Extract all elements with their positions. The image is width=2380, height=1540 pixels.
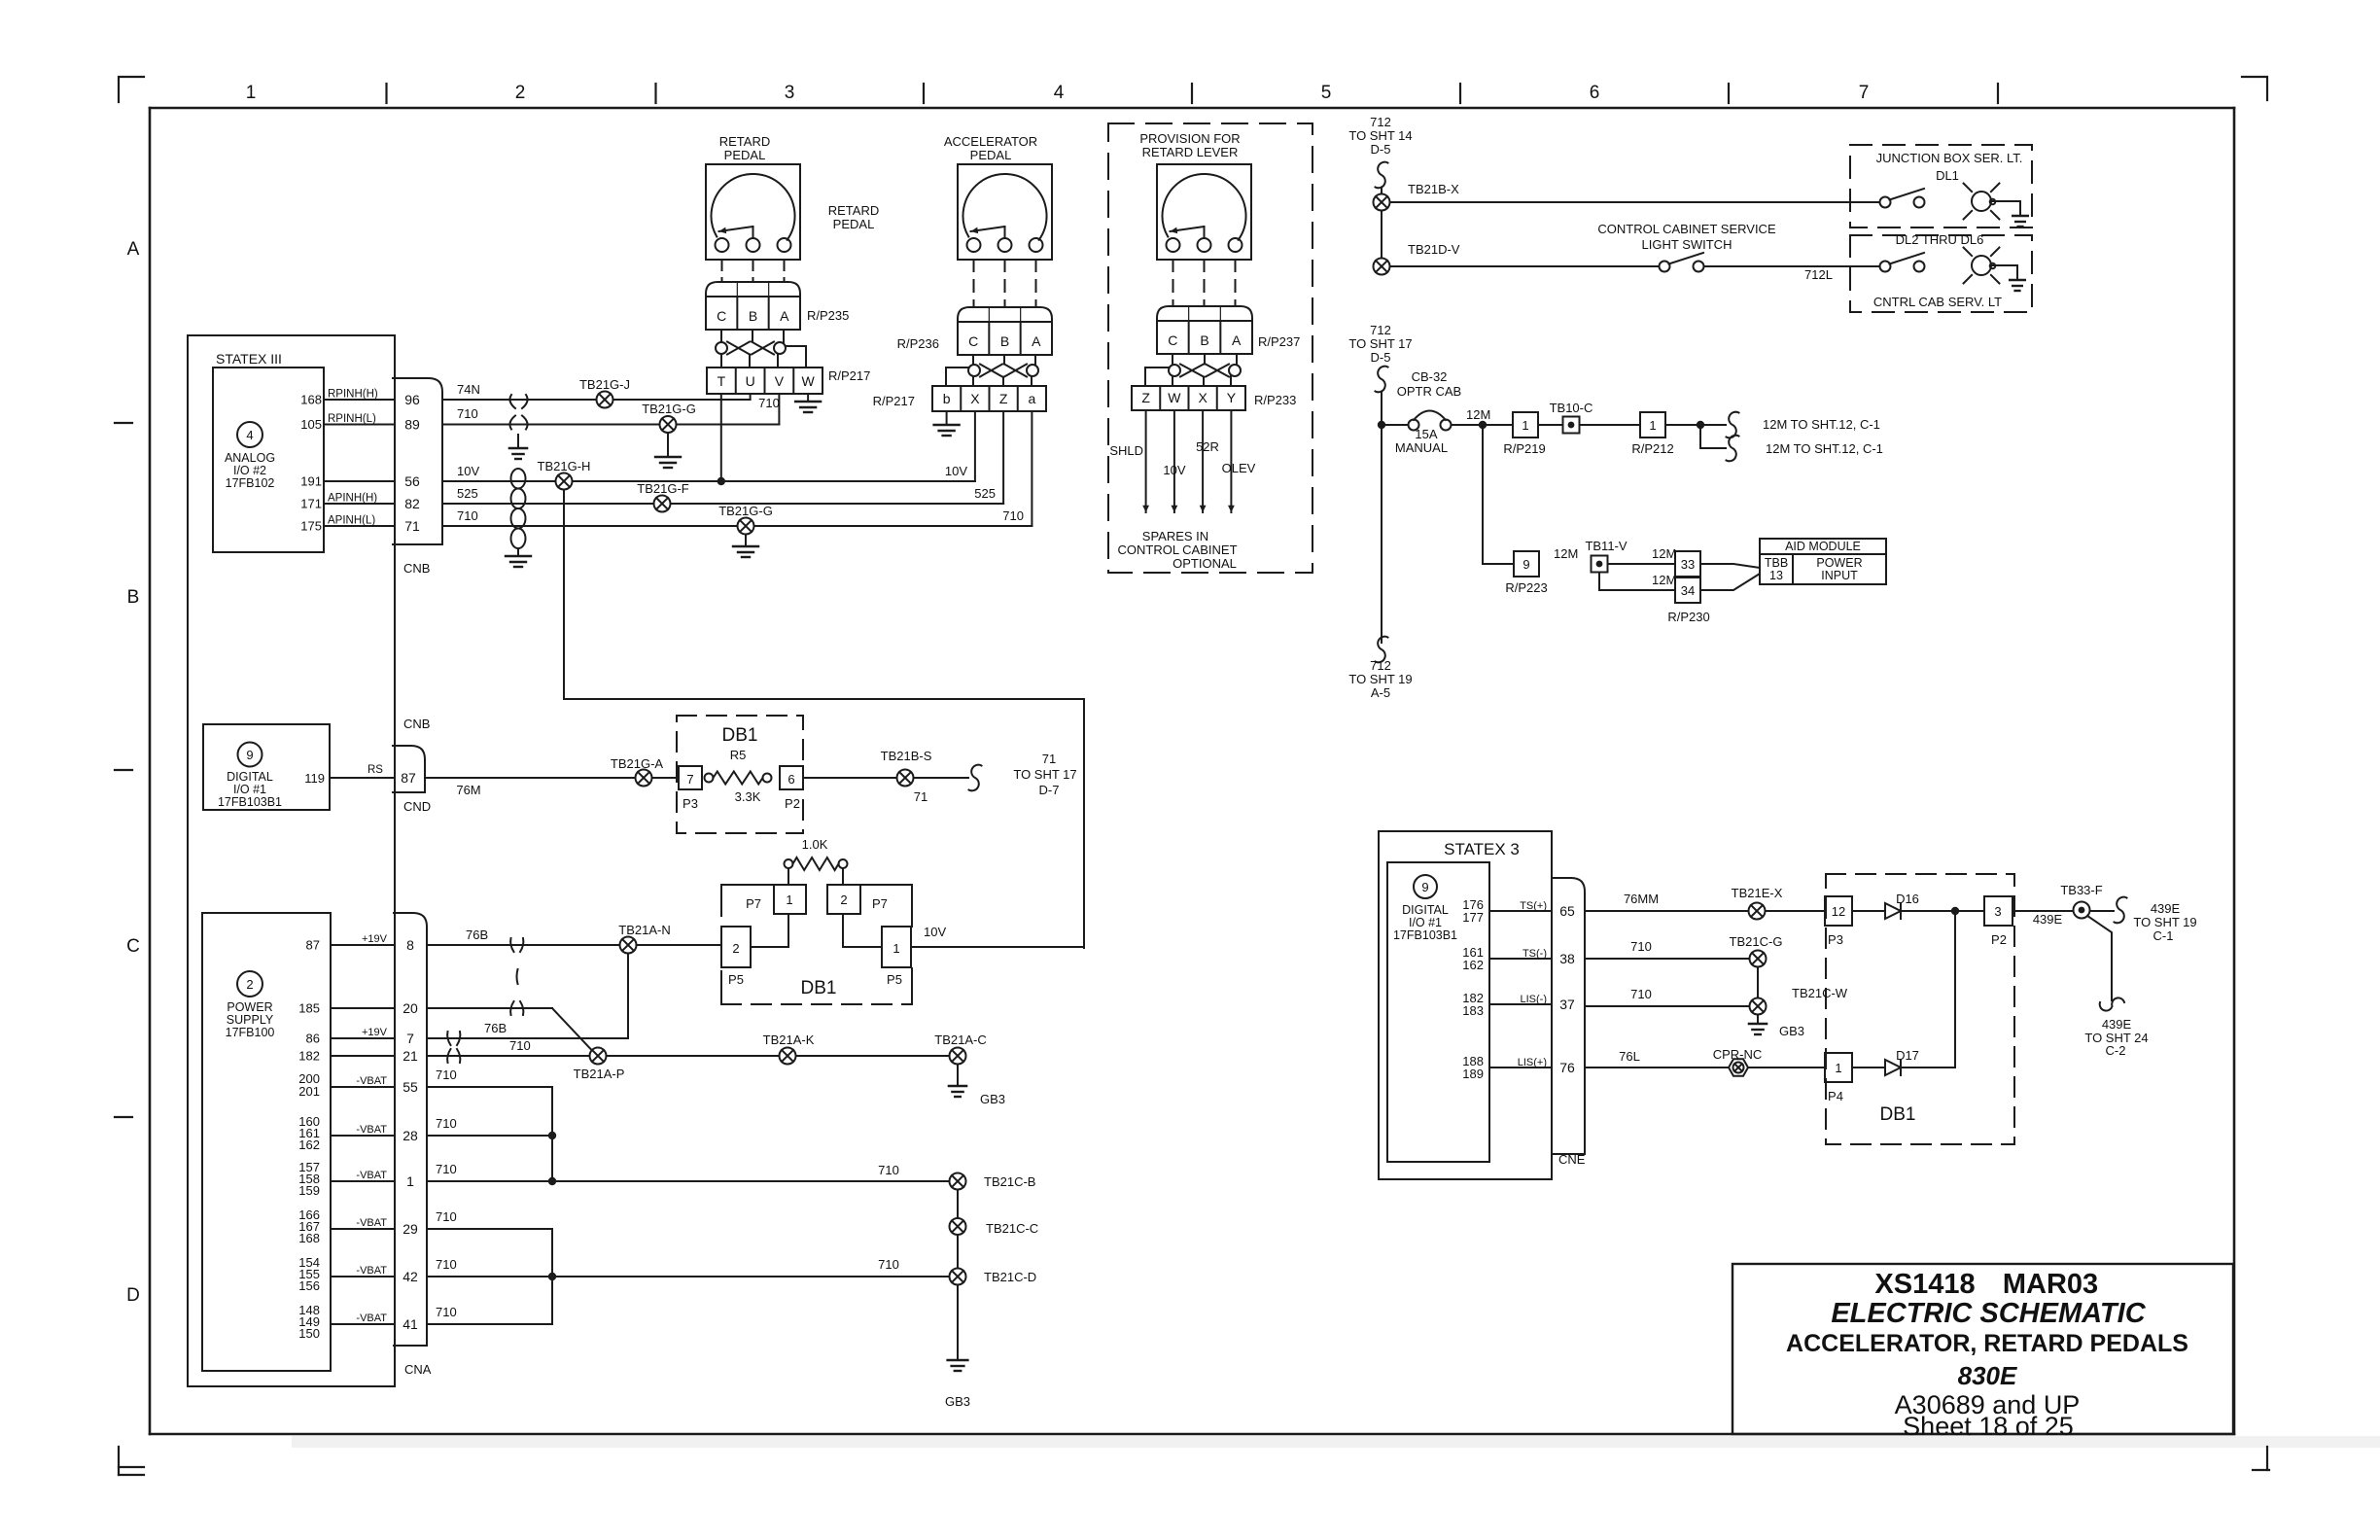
svg-text:710: 710 bbox=[457, 508, 478, 523]
svg-text:82: 82 bbox=[404, 496, 420, 511]
svg-text:76MM: 76MM bbox=[1624, 892, 1659, 906]
svg-text:TB21A-N: TB21A-N bbox=[618, 923, 670, 937]
svg-text:185: 185 bbox=[298, 1001, 320, 1016]
svg-text:76B: 76B bbox=[466, 927, 488, 942]
svg-text:96: 96 bbox=[404, 392, 420, 407]
svg-text:TB21G-G: TB21G-G bbox=[718, 504, 773, 518]
svg-text:OLEV: OLEV bbox=[1222, 461, 1256, 475]
svg-text:Y: Y bbox=[1227, 390, 1237, 405]
svg-text:PEDAL: PEDAL bbox=[724, 148, 766, 162]
svg-text:P5: P5 bbox=[728, 972, 744, 987]
svg-text:189: 189 bbox=[1462, 1067, 1484, 1081]
svg-text:CNE: CNE bbox=[1558, 1152, 1586, 1167]
svg-text:RS: RS bbox=[367, 764, 383, 776]
svg-text:162: 162 bbox=[298, 1137, 320, 1152]
svg-text:87: 87 bbox=[306, 938, 320, 953]
svg-text:JUNCTION BOX SER. LT.: JUNCTION BOX SER. LT. bbox=[1876, 151, 2023, 165]
svg-text:-VBAT: -VBAT bbox=[356, 1265, 387, 1277]
svg-text:OPTR CAB: OPTR CAB bbox=[1397, 384, 1461, 399]
svg-text:TB21E-X: TB21E-X bbox=[1732, 886, 1783, 900]
svg-text:I/O #2: I/O #2 bbox=[233, 464, 266, 477]
svg-text:29: 29 bbox=[402, 1221, 418, 1237]
svg-text:710: 710 bbox=[436, 1257, 457, 1272]
svg-text:DB1: DB1 bbox=[722, 725, 758, 746]
svg-text:SHLD: SHLD bbox=[1109, 443, 1143, 458]
svg-text:I/O #1: I/O #1 bbox=[1409, 916, 1442, 929]
svg-text:TB21C-B: TB21C-B bbox=[984, 1174, 1035, 1189]
svg-text:52R: 52R bbox=[1196, 439, 1219, 454]
svg-text:2: 2 bbox=[515, 83, 526, 103]
svg-text:RETARD LEVER: RETARD LEVER bbox=[1142, 145, 1239, 159]
svg-text:1: 1 bbox=[786, 892, 792, 907]
svg-text:171: 171 bbox=[300, 497, 322, 511]
svg-text:439E: 439E bbox=[2151, 901, 2181, 916]
svg-text:RPINH(H): RPINH(H) bbox=[328, 389, 378, 401]
svg-text:CNB: CNB bbox=[403, 561, 430, 576]
svg-text:R/P219: R/P219 bbox=[1503, 441, 1545, 456]
svg-text:710: 710 bbox=[509, 1038, 531, 1053]
svg-text:TO SHT 19: TO SHT 19 bbox=[2133, 915, 2196, 929]
svg-text:710: 710 bbox=[1630, 987, 1652, 1001]
svg-text:13: 13 bbox=[1769, 569, 1783, 582]
svg-text:LIS(-): LIS(-) bbox=[1521, 994, 1548, 1005]
svg-text:P4: P4 bbox=[1828, 1089, 1843, 1103]
svg-text:CPR-NC: CPR-NC bbox=[1713, 1047, 1763, 1062]
svg-text:CND: CND bbox=[403, 799, 431, 814]
svg-text:12M: 12M bbox=[1554, 546, 1578, 561]
svg-text:D17: D17 bbox=[1896, 1048, 1919, 1063]
svg-text:D-7: D-7 bbox=[1039, 783, 1060, 797]
svg-text:71: 71 bbox=[1042, 752, 1056, 766]
svg-text:W: W bbox=[802, 373, 816, 389]
svg-text:12: 12 bbox=[1832, 904, 1845, 919]
svg-text:86: 86 bbox=[306, 1032, 320, 1046]
svg-text:B: B bbox=[749, 308, 757, 324]
svg-text:525: 525 bbox=[974, 486, 996, 501]
svg-text:41: 41 bbox=[402, 1316, 418, 1332]
svg-text:34: 34 bbox=[1681, 583, 1695, 598]
svg-text:STATEX III: STATEX III bbox=[216, 351, 282, 367]
svg-text:P5: P5 bbox=[887, 972, 902, 987]
svg-text:710: 710 bbox=[878, 1163, 899, 1177]
svg-text:12M TO SHT.12, C-1: 12M TO SHT.12, C-1 bbox=[1763, 417, 1880, 432]
svg-text:TS(+): TS(+) bbox=[1520, 900, 1547, 912]
svg-text:AID MODULE: AID MODULE bbox=[1785, 540, 1861, 553]
svg-text:X: X bbox=[1198, 390, 1207, 405]
svg-text:ACCELERATOR: ACCELERATOR bbox=[944, 134, 1037, 149]
svg-text:DB1: DB1 bbox=[801, 978, 837, 998]
svg-text:P7: P7 bbox=[746, 896, 761, 911]
svg-text:76M: 76M bbox=[456, 783, 480, 797]
svg-text:DL2 THRU DL6: DL2 THRU DL6 bbox=[1896, 232, 1984, 247]
svg-text:P3: P3 bbox=[1828, 932, 1843, 947]
svg-text:A: A bbox=[127, 239, 140, 260]
svg-text:POWER: POWER bbox=[1816, 556, 1862, 570]
svg-text:TB21G-G: TB21G-G bbox=[642, 402, 696, 416]
svg-text:9: 9 bbox=[246, 748, 253, 762]
svg-text:C: C bbox=[126, 936, 140, 957]
svg-text:R/P223: R/P223 bbox=[1505, 580, 1547, 595]
svg-text:710: 710 bbox=[436, 1305, 457, 1319]
svg-text:CNA: CNA bbox=[404, 1362, 432, 1377]
svg-text:1: 1 bbox=[892, 941, 899, 956]
svg-text:STATEX 3: STATEX 3 bbox=[1444, 840, 1520, 858]
svg-text:TB11-V: TB11-V bbox=[1585, 539, 1627, 553]
svg-text:CNB: CNB bbox=[403, 717, 430, 731]
svg-text:D-5: D-5 bbox=[1371, 142, 1391, 157]
svg-text:4: 4 bbox=[246, 428, 253, 442]
svg-text:33: 33 bbox=[1681, 557, 1695, 572]
svg-text:C-2: C-2 bbox=[2106, 1043, 2126, 1058]
svg-text:INPUT: INPUT bbox=[1821, 569, 1858, 582]
svg-text:712: 712 bbox=[1370, 323, 1391, 337]
svg-text:R/P217: R/P217 bbox=[873, 394, 915, 408]
svg-text:A-5: A-5 bbox=[1371, 685, 1390, 700]
svg-text:A: A bbox=[1032, 333, 1041, 349]
svg-text:TB10-C: TB10-C bbox=[1550, 401, 1593, 415]
svg-text:156: 156 bbox=[298, 1278, 320, 1293]
svg-text:712: 712 bbox=[1370, 115, 1391, 129]
svg-text:P7: P7 bbox=[872, 896, 888, 911]
svg-text:X: X bbox=[970, 391, 980, 406]
svg-text:MAR03: MAR03 bbox=[2003, 1269, 2098, 1300]
svg-text:159: 159 bbox=[298, 1183, 320, 1198]
svg-text:TB21B-S: TB21B-S bbox=[881, 749, 932, 763]
svg-text:CONTROL CABINET SERVICE: CONTROL CABINET SERVICE bbox=[1597, 222, 1776, 236]
svg-text:710: 710 bbox=[436, 1067, 457, 1082]
svg-text:12M: 12M bbox=[1652, 546, 1676, 561]
svg-text:710: 710 bbox=[758, 396, 780, 410]
svg-text:12M: 12M bbox=[1652, 573, 1676, 587]
svg-text:APINH(L): APINH(L) bbox=[328, 515, 375, 527]
svg-text:830E: 830E bbox=[1958, 1361, 2017, 1390]
svg-text:D: D bbox=[126, 1285, 140, 1306]
svg-text:-VBAT: -VBAT bbox=[356, 1312, 387, 1324]
svg-text:20: 20 bbox=[402, 1000, 418, 1016]
svg-text:9: 9 bbox=[1522, 557, 1529, 572]
svg-text:XS1418: XS1418 bbox=[1874, 1269, 1975, 1300]
svg-text:TB21C-G: TB21C-G bbox=[1730, 934, 1783, 949]
svg-text:GB3: GB3 bbox=[980, 1092, 1005, 1106]
svg-text:17FB102: 17FB102 bbox=[226, 476, 275, 490]
svg-text:PROVISION FOR: PROVISION FOR bbox=[1139, 131, 1240, 146]
svg-text:55: 55 bbox=[402, 1079, 418, 1095]
svg-text:71: 71 bbox=[404, 518, 420, 534]
svg-text:R/P217: R/P217 bbox=[828, 368, 870, 383]
svg-text:R/P230: R/P230 bbox=[1667, 610, 1709, 624]
svg-text:P3: P3 bbox=[682, 796, 698, 811]
svg-text:TS(-): TS(-) bbox=[1522, 948, 1547, 960]
svg-text:TB21G-F: TB21G-F bbox=[637, 481, 689, 496]
svg-text:710: 710 bbox=[1002, 508, 1024, 523]
svg-text:PEDAL: PEDAL bbox=[970, 148, 1012, 162]
svg-text:C-1: C-1 bbox=[2153, 928, 2174, 943]
svg-text:182: 182 bbox=[298, 1049, 320, 1064]
svg-text:1: 1 bbox=[406, 1173, 414, 1189]
svg-text:GB3: GB3 bbox=[945, 1394, 970, 1409]
svg-text:R/P236: R/P236 bbox=[897, 336, 939, 351]
svg-text:119: 119 bbox=[304, 771, 325, 786]
svg-text:R/P235: R/P235 bbox=[807, 308, 849, 323]
svg-text:TB21D-V: TB21D-V bbox=[1408, 242, 1460, 257]
svg-text:191: 191 bbox=[300, 474, 322, 489]
svg-text:TB21G-A: TB21G-A bbox=[611, 756, 664, 771]
svg-text:89: 89 bbox=[404, 417, 420, 433]
svg-text:1: 1 bbox=[1522, 418, 1528, 433]
svg-text:5: 5 bbox=[1321, 83, 1332, 103]
svg-text:38: 38 bbox=[1559, 951, 1575, 966]
svg-text:15A: 15A bbox=[1415, 427, 1437, 441]
svg-text:A: A bbox=[1232, 332, 1242, 348]
svg-text:Sheet 18 of 25: Sheet 18 of 25 bbox=[1903, 1412, 2074, 1441]
svg-text:Z: Z bbox=[999, 391, 1008, 406]
svg-text:7: 7 bbox=[686, 772, 693, 787]
svg-text:SPARES IN: SPARES IN bbox=[1142, 529, 1208, 543]
svg-text:201: 201 bbox=[298, 1084, 320, 1099]
svg-text:65: 65 bbox=[1559, 903, 1575, 919]
svg-text:SUPPLY: SUPPLY bbox=[227, 1013, 274, 1027]
svg-text:525: 525 bbox=[457, 486, 478, 501]
svg-text:T: T bbox=[717, 373, 726, 389]
svg-text:71: 71 bbox=[914, 789, 927, 804]
svg-text:A: A bbox=[780, 308, 789, 324]
svg-text:I/O #1: I/O #1 bbox=[233, 783, 266, 796]
svg-text:POWER: POWER bbox=[227, 1000, 272, 1014]
svg-text:B: B bbox=[1200, 332, 1208, 348]
svg-text:1.0K: 1.0K bbox=[802, 837, 828, 852]
svg-text:3.3K: 3.3K bbox=[735, 789, 761, 804]
svg-text:R/P212: R/P212 bbox=[1631, 441, 1673, 456]
svg-text:56: 56 bbox=[404, 473, 420, 489]
svg-text:439E: 439E bbox=[2102, 1017, 2132, 1032]
svg-text:C: C bbox=[717, 308, 726, 324]
svg-text:TO SHT 14: TO SHT 14 bbox=[1348, 128, 1412, 143]
svg-text:TBB: TBB bbox=[1765, 556, 1788, 570]
svg-text:10V: 10V bbox=[1163, 463, 1185, 477]
svg-text:710: 710 bbox=[457, 406, 478, 421]
svg-text:168: 168 bbox=[298, 1231, 320, 1245]
svg-text:105: 105 bbox=[300, 417, 322, 432]
svg-text:710: 710 bbox=[878, 1257, 899, 1272]
svg-text:12M: 12M bbox=[1466, 407, 1490, 422]
svg-text:1: 1 bbox=[1649, 418, 1656, 433]
svg-text:TB21B-X: TB21B-X bbox=[1408, 182, 1459, 196]
svg-text:710: 710 bbox=[1630, 939, 1652, 954]
svg-text:439E: 439E bbox=[2033, 912, 2063, 927]
svg-text:2: 2 bbox=[732, 941, 739, 956]
svg-text:ANALOG: ANALOG bbox=[225, 451, 275, 465]
svg-text:RETARD: RETARD bbox=[828, 203, 879, 218]
svg-text:4: 4 bbox=[1054, 83, 1065, 103]
svg-text:C: C bbox=[968, 333, 978, 349]
svg-text:+19V: +19V bbox=[362, 933, 388, 945]
svg-text:74N: 74N bbox=[457, 382, 480, 397]
svg-text:76: 76 bbox=[1559, 1060, 1575, 1075]
svg-text:DIGITAL: DIGITAL bbox=[227, 770, 273, 784]
svg-text:6: 6 bbox=[787, 772, 794, 787]
svg-text:712L: 712L bbox=[1804, 267, 1833, 282]
svg-text:TO SHT 17: TO SHT 17 bbox=[1348, 336, 1412, 351]
svg-text:7: 7 bbox=[1859, 83, 1870, 103]
svg-text:TB21C-D: TB21C-D bbox=[984, 1270, 1036, 1284]
svg-text:6: 6 bbox=[1590, 83, 1600, 103]
svg-text:2: 2 bbox=[840, 892, 847, 907]
svg-text:Z: Z bbox=[1141, 390, 1150, 405]
svg-text:21: 21 bbox=[402, 1048, 418, 1064]
svg-text:D-5: D-5 bbox=[1371, 350, 1391, 365]
svg-text:GB3: GB3 bbox=[1779, 1024, 1804, 1038]
svg-text:DL1: DL1 bbox=[1936, 168, 1959, 183]
svg-text:B: B bbox=[127, 587, 140, 608]
svg-text:RPINH(L): RPINH(L) bbox=[328, 413, 376, 425]
svg-text:-VBAT: -VBAT bbox=[356, 1170, 387, 1181]
svg-text:162: 162 bbox=[1462, 958, 1484, 972]
svg-text:2: 2 bbox=[246, 977, 253, 992]
svg-text:TO SHT 19: TO SHT 19 bbox=[1348, 672, 1412, 686]
svg-text:APINH(H): APINH(H) bbox=[328, 493, 377, 505]
svg-text:TB21C-C: TB21C-C bbox=[986, 1221, 1038, 1236]
svg-text:76B: 76B bbox=[484, 1021, 507, 1035]
svg-text:+19V: +19V bbox=[362, 1027, 388, 1038]
svg-text:P2: P2 bbox=[1991, 932, 2007, 947]
svg-text:28: 28 bbox=[402, 1128, 418, 1143]
svg-text:710: 710 bbox=[436, 1116, 457, 1131]
svg-text:1: 1 bbox=[1835, 1061, 1841, 1075]
svg-text:LIGHT SWITCH: LIGHT SWITCH bbox=[1642, 237, 1732, 252]
svg-text:168: 168 bbox=[300, 393, 322, 407]
svg-text:DIGITAL: DIGITAL bbox=[1402, 903, 1449, 917]
svg-text:P2: P2 bbox=[785, 796, 800, 811]
svg-text:42: 42 bbox=[402, 1269, 418, 1284]
svg-text:C: C bbox=[1168, 332, 1177, 348]
svg-text:D16: D16 bbox=[1896, 892, 1919, 906]
svg-text:710: 710 bbox=[436, 1162, 457, 1176]
svg-text:RETARD: RETARD bbox=[719, 134, 770, 149]
svg-text:R5: R5 bbox=[730, 748, 747, 762]
svg-text:ELECTRIC SCHEMATIC: ELECTRIC SCHEMATIC bbox=[1831, 1298, 2146, 1329]
svg-text:76L: 76L bbox=[1619, 1049, 1640, 1064]
svg-text:PEDAL: PEDAL bbox=[833, 217, 875, 231]
svg-text:150: 150 bbox=[298, 1326, 320, 1341]
svg-text:-VBAT: -VBAT bbox=[356, 1124, 387, 1136]
svg-text:CB-32: CB-32 bbox=[1412, 369, 1448, 384]
svg-text:LIS(+): LIS(+) bbox=[1518, 1057, 1547, 1068]
svg-text:17FB103B1: 17FB103B1 bbox=[218, 795, 282, 809]
svg-text:TB21A-P: TB21A-P bbox=[574, 1067, 625, 1081]
svg-text:12M TO SHT.12, C-1: 12M TO SHT.12, C-1 bbox=[1766, 441, 1883, 456]
svg-text:CNTRL CAB SERV. LT: CNTRL CAB SERV. LT bbox=[1873, 295, 2002, 309]
svg-text:9: 9 bbox=[1421, 880, 1428, 894]
svg-text:ACCELERATOR, RETARD PEDALS: ACCELERATOR, RETARD PEDALS bbox=[1786, 1330, 2188, 1357]
svg-text:V: V bbox=[775, 373, 785, 389]
svg-text:37: 37 bbox=[1559, 997, 1575, 1012]
svg-text:a: a bbox=[1028, 391, 1035, 406]
svg-text:3: 3 bbox=[1994, 904, 2001, 919]
svg-text:B: B bbox=[1000, 333, 1009, 349]
svg-text:OPTIONAL: OPTIONAL bbox=[1172, 556, 1237, 571]
svg-text:183: 183 bbox=[1462, 1003, 1484, 1018]
svg-text:TB21G-J: TB21G-J bbox=[579, 377, 630, 392]
svg-text:1: 1 bbox=[246, 83, 257, 103]
svg-text:R/P237: R/P237 bbox=[1258, 334, 1300, 349]
svg-text:-VBAT: -VBAT bbox=[356, 1217, 387, 1229]
svg-text:b: b bbox=[943, 391, 951, 406]
svg-text:177: 177 bbox=[1462, 910, 1484, 925]
svg-text:10V: 10V bbox=[457, 464, 479, 478]
svg-text:712: 712 bbox=[1370, 658, 1391, 673]
svg-text:17FB100: 17FB100 bbox=[226, 1026, 275, 1039]
svg-text:TB21A-C: TB21A-C bbox=[934, 1032, 986, 1047]
svg-text:TB21A-K: TB21A-K bbox=[763, 1032, 815, 1047]
svg-text:-VBAT: -VBAT bbox=[356, 1075, 387, 1087]
svg-text:R/P233: R/P233 bbox=[1254, 393, 1296, 407]
svg-text:U: U bbox=[746, 373, 755, 389]
svg-text:MANUAL: MANUAL bbox=[1395, 440, 1448, 455]
svg-text:175: 175 bbox=[300, 519, 322, 534]
svg-text:87: 87 bbox=[401, 770, 416, 786]
svg-text:TB33-F: TB33-F bbox=[2060, 883, 2102, 897]
svg-text:10V: 10V bbox=[924, 925, 946, 939]
svg-text:3: 3 bbox=[785, 83, 795, 103]
svg-text:7: 7 bbox=[406, 1031, 414, 1046]
svg-text:710: 710 bbox=[436, 1209, 457, 1224]
svg-text:10V: 10V bbox=[945, 464, 967, 478]
svg-text:TB21G-H: TB21G-H bbox=[538, 459, 591, 473]
svg-text:TB21C-W: TB21C-W bbox=[1792, 986, 1848, 1000]
svg-text:17FB103B1: 17FB103B1 bbox=[1393, 928, 1457, 942]
svg-text:DB1: DB1 bbox=[1880, 1104, 1916, 1125]
svg-text:W: W bbox=[1168, 390, 1181, 405]
svg-text:8: 8 bbox=[406, 937, 414, 953]
svg-text:CONTROL CABINET: CONTROL CABINET bbox=[1117, 542, 1237, 557]
svg-text:TO SHT 17: TO SHT 17 bbox=[1013, 767, 1076, 782]
